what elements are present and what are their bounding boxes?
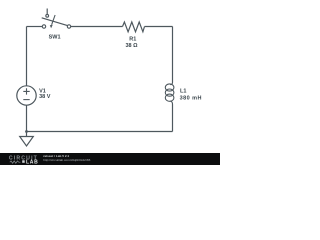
switch SW1 [42,9,71,41]
voltage source V1 [17,86,51,105]
svg-text:LAB: LAB [26,159,38,165]
wire right vertical lower [172,104,174,131]
wire left vertical upper [26,27,28,86]
wire top rail left segment [27,26,43,28]
wire bottom rail [27,131,173,133]
inductor L1 [165,82,202,104]
footer bar [0,153,220,166]
wire top rail middle segment [71,26,123,28]
CircuitLab logo [9,155,38,165]
resistor R1 [123,22,145,49]
ground [20,132,34,147]
wire top rail right segment [145,26,173,28]
svg-text:http://circuitlab.com/c6qbh0zd: http://circuitlab.com/c6qbh0zd2r65 [43,158,90,162]
wire right vertical [172,27,174,83]
node junction at V1/ground [25,130,28,133]
wire left vertical lower [26,105,28,131]
